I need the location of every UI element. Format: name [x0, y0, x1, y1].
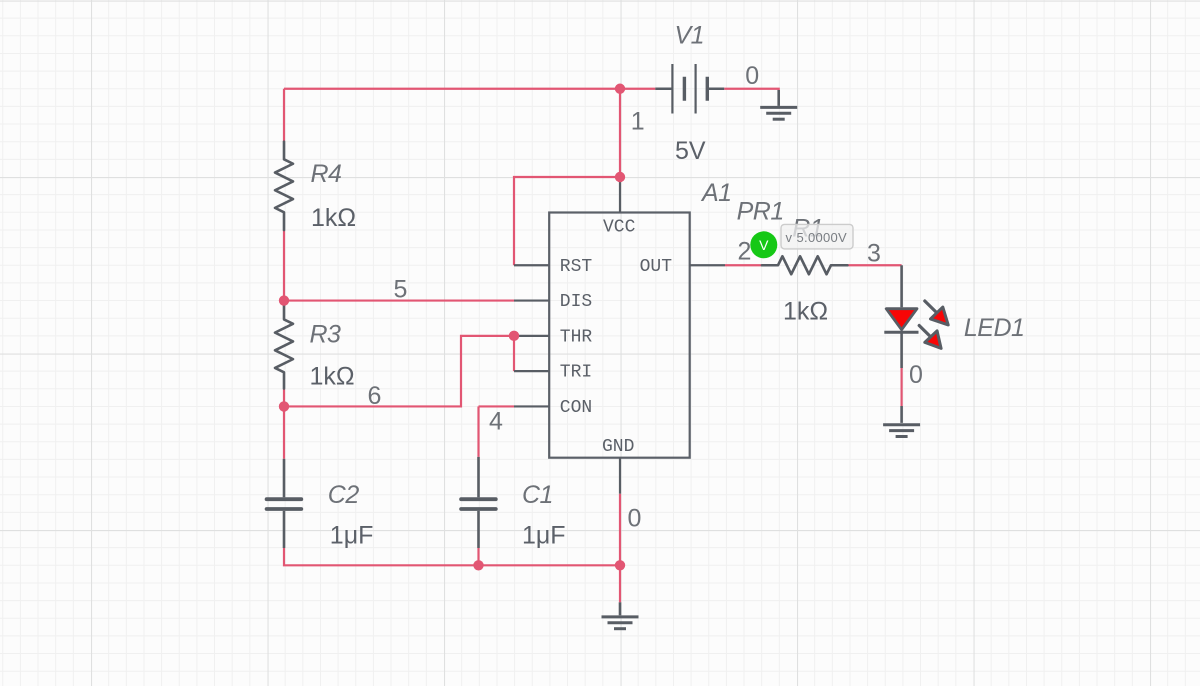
label PR1 — [737, 197, 784, 225]
svg-text:CON: CON — [560, 398, 592, 418]
wire — [513, 336, 515, 371]
pin label CON — [560, 398, 592, 418]
svg-text:v: v — [786, 230, 793, 245]
svg-text:1kΩ: 1kΩ — [311, 204, 356, 232]
wire — [284, 299, 514, 301]
svg-text:6: 6 — [368, 382, 382, 410]
wire — [284, 336, 514, 407]
pin THR stub — [514, 335, 549, 337]
tooltip 5.0000V — [781, 224, 853, 249]
svg-text:DIS: DIS — [560, 292, 592, 312]
svg-text:5: 5 — [394, 276, 408, 304]
wire — [847, 264, 901, 266]
svg-text:0: 0 — [628, 505, 642, 533]
junction node (284,406.45) — [279, 401, 289, 411]
LED LED1 — [884, 265, 918, 368]
svg-text:0: 0 — [909, 361, 923, 389]
capacitor C2 — [267, 459, 302, 548]
svg-text:1: 1 — [631, 108, 645, 136]
wire — [619, 565, 621, 602]
pin VCC stub — [619, 177, 621, 213]
pin DIS stub — [514, 299, 549, 301]
junction node (620,88.75) — [615, 84, 625, 94]
node 1 — [631, 108, 645, 136]
LED arrow 1 — [925, 301, 948, 325]
label LED1 — [964, 314, 1025, 342]
wire — [283, 230, 285, 301]
label A1 — [700, 179, 732, 207]
svg-text:C2: C2 — [328, 481, 360, 509]
resistor R1 — [762, 256, 847, 274]
resistor R4 — [275, 142, 293, 230]
wire — [284, 88, 655, 90]
wire — [900, 368, 902, 406]
pin label RST — [560, 257, 593, 277]
junction node (514,335.85) — [509, 331, 519, 341]
svg-text:C1: C1 — [522, 481, 553, 509]
label C2 — [328, 481, 360, 509]
op-amp U1: 555 timer IC box A1 — [549, 213, 690, 458]
value R1 1kOhm — [783, 298, 828, 326]
svg-text:V: V — [759, 237, 769, 253]
junction node (284,300.55) — [279, 295, 289, 305]
ground (battery) — [760, 90, 797, 119]
svg-text:LED1: LED1 — [964, 314, 1025, 342]
wire — [514, 177, 620, 265]
wire — [479, 564, 621, 566]
capacitor C1 — [461, 457, 496, 548]
svg-text:OUT: OUT — [640, 257, 673, 277]
node 3 — [867, 240, 881, 268]
label R4 — [311, 160, 342, 188]
svg-text:1μF: 1μF — [330, 522, 374, 550]
node 2 — [738, 238, 752, 266]
svg-text:THR: THR — [560, 327, 593, 347]
label R3 — [310, 320, 342, 348]
junction node (620,565.3) — [615, 560, 625, 570]
pin TRI stub — [514, 370, 549, 372]
svg-text:4: 4 — [489, 408, 503, 436]
pin label GND — [602, 437, 634, 457]
pin label THR — [560, 327, 593, 347]
label 5V — [675, 137, 706, 165]
svg-text:1kΩ: 1kΩ — [310, 362, 355, 390]
svg-text:RST: RST — [560, 257, 593, 277]
wire — [724, 89, 779, 92]
svg-text:VCC: VCC — [603, 218, 636, 238]
ground (LED) — [883, 406, 920, 437]
wire — [283, 389, 285, 407]
node 6 — [368, 382, 382, 410]
wire — [477, 548, 479, 565]
pin label OUT — [640, 257, 673, 277]
value R3 1kOhm — [310, 362, 355, 390]
label R1 (behind tooltip) — [792, 215, 823, 243]
wire — [283, 406, 285, 458]
svg-text:0: 0 — [745, 62, 759, 90]
svg-text:TRI: TRI — [560, 363, 592, 383]
ground (bottom center) — [602, 602, 639, 628]
probe PR1 — [750, 231, 777, 258]
node 4 — [489, 408, 503, 436]
wire — [619, 494, 621, 566]
svg-text:3: 3 — [867, 240, 881, 268]
svg-text:GND: GND — [602, 437, 634, 457]
pin label DIS — [560, 292, 592, 312]
pin label VCC — [603, 218, 636, 238]
wire — [283, 89, 285, 142]
label C1 — [522, 481, 553, 509]
value R4 1kOhm — [311, 204, 356, 232]
svg-text:2: 2 — [738, 238, 752, 266]
wire — [619, 89, 621, 177]
wire — [479, 405, 515, 407]
value C2 1uF — [330, 522, 374, 550]
pin RST stub — [514, 264, 549, 266]
svg-text:5V: 5V — [675, 137, 706, 165]
junction node (478.5,565.3) — [473, 560, 483, 570]
svg-text:PR1: PR1 — [737, 197, 784, 225]
svg-text:R3: R3 — [310, 320, 342, 348]
pin label TRI — [560, 363, 592, 383]
junction node (620,177) — [615, 172, 625, 182]
wire — [284, 548, 479, 565]
wire — [477, 406, 479, 456]
battery V1 — [655, 64, 724, 114]
svg-text:R4: R4 — [311, 160, 342, 188]
pin GND stub — [619, 458, 621, 494]
label V1 — [675, 22, 705, 50]
svg-text:V1: V1 — [675, 22, 705, 50]
wire — [725, 264, 762, 266]
svg-text:5.0000V: 5.0000V — [797, 230, 848, 245]
node 0 (battery) — [745, 62, 759, 90]
resistor R3 — [275, 302, 293, 389]
LED arrow 2 — [919, 326, 941, 349]
pin CON stub — [514, 405, 549, 407]
svg-text:1kΩ: 1kΩ — [783, 298, 828, 326]
node 0 (LED) — [909, 361, 923, 389]
value C1 1uF — [522, 522, 566, 550]
svg-text:A1: A1 — [700, 179, 732, 207]
pin OUT stub — [690, 264, 726, 266]
node 5 — [394, 276, 408, 304]
svg-text:1μF: 1μF — [522, 522, 566, 550]
node 0 (bottom) — [628, 505, 642, 533]
